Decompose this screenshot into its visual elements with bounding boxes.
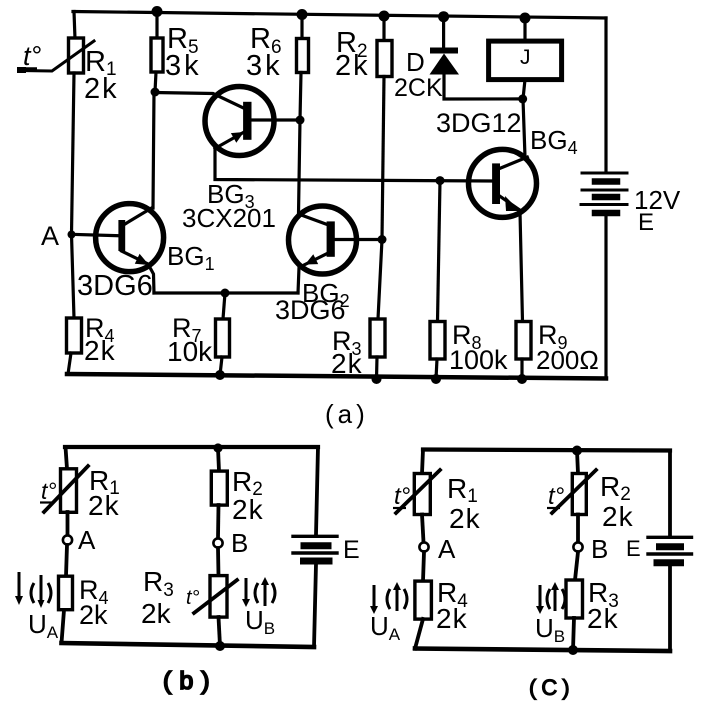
resistor R9 body xyxy=(516,322,531,360)
svg-text:2k: 2k xyxy=(331,348,363,379)
wire battery to bottom rail (c) xyxy=(668,566,672,651)
wire BG2 collector xyxy=(335,238,382,241)
resistor R5 body xyxy=(151,38,163,72)
wire R4c to bottom rail xyxy=(415,619,423,649)
svg-text:B: B xyxy=(231,528,248,558)
node R8 top junction dot xyxy=(436,176,445,185)
svg-text:3k: 3k xyxy=(165,50,202,82)
wire BG1 base xyxy=(76,235,118,236)
svg-text:2k: 2k xyxy=(84,335,116,366)
resistor R8 body xyxy=(430,322,445,360)
thermistor slash R2 (c) xyxy=(552,470,596,513)
node dot top rail (c) xyxy=(572,446,582,456)
node R9 bottom junction dot xyxy=(517,374,527,384)
svg-text:A: A xyxy=(78,525,96,555)
svg-text:B: B xyxy=(591,534,608,564)
svg-text:BG4: BG4 xyxy=(530,125,578,158)
transistor BG3 xyxy=(205,87,274,156)
node R5/BG1/BG3 junction dot xyxy=(151,88,160,97)
wire BG3 emitter down xyxy=(215,150,492,181)
wire left column to R1c xyxy=(422,450,423,474)
svg-text:UB: UB xyxy=(535,613,565,646)
node R3b bottom junction dot xyxy=(215,641,225,651)
wire relay node to BG4 collector xyxy=(523,99,525,157)
current arrow group UB (c) xyxy=(536,582,565,614)
resistor R2 (c) body (thermistor) xyxy=(572,474,586,515)
node B (c) open circle xyxy=(573,542,582,551)
svg-text:t°: t° xyxy=(41,478,57,504)
svg-text:3DG6: 3DG6 xyxy=(275,295,346,325)
svg-text:E: E xyxy=(638,209,654,236)
svg-text:R2: R2 xyxy=(600,471,631,505)
wire bottom rail xyxy=(67,374,606,379)
wire to R7 xyxy=(223,293,225,319)
svg-text:UA: UA xyxy=(370,611,401,644)
resistor R4 (b) body xyxy=(59,576,73,610)
transistor BG4 xyxy=(469,149,537,217)
resistor R2 body xyxy=(377,41,392,77)
transistor BG1 xyxy=(96,204,164,272)
node BG2 collector / R2R3 junction dot xyxy=(378,235,387,244)
diode D cathode bar xyxy=(430,48,458,54)
svg-text:UA: UA xyxy=(28,609,59,642)
resistor R2 (b) body xyxy=(211,471,227,505)
svg-text:R3: R3 xyxy=(143,566,174,601)
wire node A to R4 (c) xyxy=(423,552,424,581)
svg-text:2k: 2k xyxy=(335,50,370,82)
wire left column to R1b xyxy=(66,447,68,469)
node B (b) open circle xyxy=(213,538,222,547)
wire BG1 collector riser xyxy=(153,92,154,208)
resistor R3 (c) body xyxy=(566,580,583,618)
wire top rail xyxy=(73,12,606,19)
wire R6 to BG3 collector node xyxy=(300,73,301,121)
wire R3b to bottom rail xyxy=(219,617,221,646)
node dot top rail (b) xyxy=(213,443,222,452)
wire mid column to R2c xyxy=(577,451,578,474)
wire right column (c) battery top xyxy=(668,451,672,537)
battery E 12V plates xyxy=(581,173,627,205)
svg-text:E: E xyxy=(626,536,641,561)
resistor R5 column: junction dot on top rail xyxy=(152,6,163,17)
svg-text:2CK: 2CK xyxy=(394,74,443,102)
wire R9 to bottom rail xyxy=(520,359,523,379)
wire BG2 base (from BG3 collector node) xyxy=(299,120,328,225)
svg-text:3CX201: 3CX201 xyxy=(182,203,276,233)
svg-text:2k: 2k xyxy=(88,490,120,521)
wire right column upper (rail to battery) xyxy=(604,18,607,172)
svg-text:2k: 2k xyxy=(79,600,108,630)
wire node B to R3 (b) xyxy=(216,548,220,576)
wire rail to R6 xyxy=(300,15,303,40)
wire R8 to bottom rail xyxy=(436,359,437,379)
svg-text:A: A xyxy=(438,534,456,564)
svg-text:2k: 2k xyxy=(84,73,119,105)
node BG3 collector / R6 junction dot xyxy=(296,116,305,125)
resistor R4 (c) body xyxy=(415,581,432,619)
wire node A to R4 xyxy=(72,235,75,319)
BG3 emitter xyxy=(215,132,245,149)
wire R8 column xyxy=(438,181,441,322)
svg-text:2k: 2k xyxy=(141,598,172,629)
svg-text:2k: 2k xyxy=(587,603,619,634)
wire BG3 collector xyxy=(251,118,300,121)
BG1 collector diagonal xyxy=(125,208,153,225)
node R8 bottom junction dot xyxy=(431,374,441,384)
wire right column (b) battery top xyxy=(316,447,318,535)
BG4 emitter diagonal with arrow xyxy=(500,196,520,210)
svg-text:3DG6: 3DG6 xyxy=(77,270,153,302)
node A (b) open circle xyxy=(63,535,72,544)
BG1 emitter diagonal with arrow xyxy=(122,251,155,293)
svg-text:3DG12: 3DG12 xyxy=(436,108,522,138)
wire mid column to R2b xyxy=(218,448,219,471)
svg-text:(b): (b) xyxy=(163,667,218,695)
wire R4 to bottom rail xyxy=(68,353,71,374)
svg-text:t°: t° xyxy=(23,41,42,71)
svg-text:t°: t° xyxy=(548,483,565,510)
svg-text:2k: 2k xyxy=(602,501,634,532)
wire right column lower (battery to bottom rail) xyxy=(604,216,607,379)
wire R1b to node A xyxy=(66,512,70,535)
resistor R1 (c) body xyxy=(414,474,430,515)
thermistor slash R3 (b) xyxy=(194,580,237,613)
resistor R7 body xyxy=(216,319,230,357)
node A junction dot xyxy=(68,231,76,239)
current arrow group UA (c) xyxy=(370,582,407,614)
wire rail to R5 xyxy=(155,12,158,40)
svg-text:t°: t° xyxy=(394,483,411,510)
wire rail to relay xyxy=(523,18,526,41)
node R7 junction dot xyxy=(221,289,230,298)
svg-text:2k: 2k xyxy=(232,494,264,525)
svg-text:200Ω: 200Ω xyxy=(536,345,599,375)
transistor BG2 xyxy=(289,206,357,274)
wire BG3 base xyxy=(155,93,244,109)
svg-text:2k: 2k xyxy=(449,503,481,534)
wire R4b to bottom rail xyxy=(62,610,65,643)
resistor R6 body xyxy=(297,39,309,73)
wire diode to relay node xyxy=(444,75,523,100)
wire R5 to node xyxy=(155,72,156,92)
wire left column: rail to R1 xyxy=(74,12,75,40)
resistor R6 column: junction dot on top rail xyxy=(297,9,308,20)
wire node A to R4 (b) xyxy=(66,545,67,576)
node R7 bottom junction dot xyxy=(215,370,225,380)
svg-text:3k: 3k xyxy=(246,50,283,82)
BG2 emitter diagonal with arrow xyxy=(298,254,327,293)
resistor R1 (b) body xyxy=(61,469,77,513)
wire top rail (c) xyxy=(423,450,670,451)
resistor R2 column: junction dot on top rail xyxy=(379,11,390,22)
wire bottom rail (b) xyxy=(62,643,315,647)
node R3 bottom junction dot xyxy=(372,374,382,384)
svg-text:J: J xyxy=(520,46,531,69)
svg-text:10k: 10k xyxy=(167,336,213,367)
svg-text:D: D xyxy=(406,47,425,77)
wire bottom rail (c) xyxy=(415,649,670,652)
BG4 collector diagonal xyxy=(500,157,528,168)
svg-text:E: E xyxy=(343,536,360,564)
diode D triangle xyxy=(430,54,460,75)
relay J coil box xyxy=(489,41,562,80)
resistor R4 body xyxy=(67,318,82,353)
thermistor slash of R1 xyxy=(19,41,94,71)
current arrow group UA (b) xyxy=(15,572,51,608)
wire R7 to bottom rail xyxy=(220,357,222,375)
svg-text:A: A xyxy=(41,221,59,251)
svg-text:BG1: BG1 xyxy=(167,241,215,274)
svg-text:R1: R1 xyxy=(447,473,478,507)
wire emitters join rail xyxy=(154,291,298,294)
battery E (c) plates xyxy=(648,536,692,539)
current arrow group UB (b) xyxy=(242,577,275,607)
wire battery to bottom rail (b) xyxy=(314,564,316,647)
node A (c) open circle xyxy=(419,542,428,551)
svg-text:2k: 2k xyxy=(436,603,468,634)
resistor R3 body xyxy=(370,319,385,357)
wire node B to R3 (c) xyxy=(575,552,578,580)
wire R1c to node A xyxy=(422,515,424,543)
resistor R3 (b) body (thermistor) xyxy=(210,576,227,618)
relay J: junction dot on top rail xyxy=(520,13,531,24)
svg-text:t°: t° xyxy=(186,587,200,609)
wire rail to diode xyxy=(442,17,445,48)
wire R2c to node B xyxy=(576,515,580,543)
svg-text:UB: UB xyxy=(245,605,275,638)
wire R3 to bottom rail xyxy=(375,357,379,379)
svg-text:100k: 100k xyxy=(449,345,508,375)
wire R3c to bottom rail xyxy=(573,618,574,650)
wire top rail (b) xyxy=(65,445,318,449)
svg-text:(C): (C) xyxy=(529,675,575,700)
svg-text:(a): (a) xyxy=(325,399,369,429)
wire relay to node xyxy=(523,80,525,99)
wire BG2 collector node to R3 xyxy=(378,240,382,320)
node diode/relay junction dot xyxy=(518,94,527,103)
node R3c bottom junction dot xyxy=(568,645,578,655)
thermistor slash R1 (b) xyxy=(44,466,88,512)
wire R2 to BG2 collector node xyxy=(382,77,384,240)
wire R2b to node B xyxy=(216,505,220,538)
diode D: junction dot on top rail xyxy=(438,11,449,22)
thermistor slash R1 (c) xyxy=(396,470,440,513)
wire BG4 emitter to R9 xyxy=(520,212,523,322)
wire rail to R2 xyxy=(382,16,385,41)
battery E (b) plates xyxy=(293,535,337,538)
resistor R1 (thermistor) body xyxy=(69,38,84,73)
wire R1 to node A xyxy=(72,73,75,234)
